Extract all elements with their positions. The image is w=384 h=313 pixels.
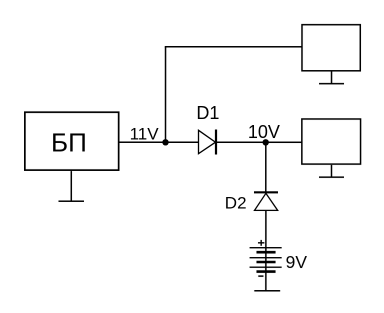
battery cell 1 long plate	[250, 247, 282, 249]
svg-text:D1: D1	[196, 103, 219, 123]
svg-text:9V: 9V	[286, 252, 308, 272]
battery cell 2 long plate	[250, 257, 282, 259]
wire top horizontal to top box	[165, 46, 302, 48]
svg-text:10V: 10V	[248, 122, 280, 142]
wire D2 to battery and through to ground	[265, 210, 267, 290]
mid-right load box	[302, 119, 361, 164]
battery cell 1 short plate	[256, 251, 275, 254]
node 10V junction dot	[263, 139, 269, 145]
top-right load box	[302, 25, 360, 71]
wire 10V node down to D2	[265, 142, 267, 192]
svg-text:11V: 11V	[130, 124, 160, 143]
battery bottom ground bar	[254, 290, 280, 292]
ground under mid box : stem	[330, 165, 332, 177]
battery plus sign	[258, 242, 264, 244]
battery cell 3 long plate	[250, 266, 282, 268]
battery minus sign	[258, 275, 263, 277]
svg-text:D2: D2	[225, 194, 247, 213]
wire БП to D1	[120, 141, 199, 143]
svg-text:БП: БП	[51, 128, 87, 158]
power supply box БП	[25, 112, 119, 170]
ground under БП : bar	[58, 200, 83, 202]
diode D2 triangle	[254, 193, 277, 210]
diode D1 cathode bar	[215, 130, 217, 155]
node 11V junction dot	[162, 139, 168, 145]
ground under top box : stem	[331, 72, 333, 84]
ground under БП : stem	[70, 171, 72, 201]
diode D2 cathode bar	[254, 191, 278, 193]
wire riser from 11V node to top	[165, 47, 167, 142]
diode D1 triangle	[199, 130, 216, 153]
wire D1 to mid box	[216, 141, 301, 143]
battery cell 3 short plate	[256, 270, 275, 273]
ground under top box : bar	[319, 83, 344, 85]
battery cell 2 short plate	[256, 261, 275, 264]
ground under mid box : bar	[319, 176, 344, 178]
